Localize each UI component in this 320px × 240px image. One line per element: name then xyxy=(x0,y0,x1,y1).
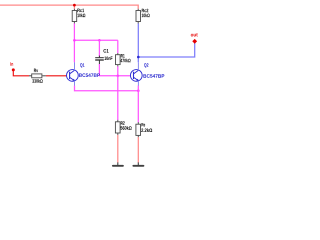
lead Re bottom xyxy=(137,135,139,137)
wire Re bottom to ground xyxy=(137,137,139,163)
transistor Q1 xyxy=(67,62,79,86)
resistor R2 xyxy=(115,121,131,133)
wire C1 top xyxy=(98,40,100,56)
wire Rc1 bottom to node40 to Q1 collector xyxy=(73,23,75,62)
wire VCC rail xyxy=(0,5,138,9)
transistor Q2 xyxy=(130,62,142,86)
wire R1 bottom to base node xyxy=(117,66,119,76)
capacitor C1 xyxy=(95,49,112,64)
node Q1 collector junction xyxy=(73,39,76,42)
resistor R1 xyxy=(116,54,131,65)
lead Re top xyxy=(137,122,139,124)
ground under Re xyxy=(133,162,143,165)
node C1 junction xyxy=(98,39,101,42)
lead Rc2 top xyxy=(137,9,139,11)
resistor Rc2 xyxy=(136,9,150,22)
lead R2 bottom xyxy=(117,133,119,135)
lead Rc1 bottom xyxy=(73,21,75,23)
wire R1 bottom to base node xyxy=(117,65,119,67)
resistor Rv xyxy=(29,69,46,83)
wire In to Rv xyxy=(13,71,29,76)
wire R2 bottom to ground xyxy=(117,135,119,163)
port In xyxy=(11,62,15,71)
wire node40 horizontal xyxy=(74,39,117,41)
resistor Re xyxy=(136,123,152,135)
wire node40 down to R1 xyxy=(117,40,119,53)
lead Rc2 bottom xyxy=(137,21,139,23)
wire base node down to R2 xyxy=(117,76,119,120)
port out xyxy=(191,33,198,44)
node VCC junction xyxy=(73,4,76,7)
ground under R2 xyxy=(113,162,123,165)
wire Q2 emitter to Re xyxy=(137,86,139,123)
label Q2 xyxy=(144,63,148,67)
label Q2 type xyxy=(143,74,164,78)
wire out branch xyxy=(138,43,194,57)
lead R1 top xyxy=(117,53,119,55)
wire C1 bottom to Q2 base line xyxy=(99,64,130,76)
resistor Rc1 xyxy=(72,9,85,22)
wire Rv to Q1 base xyxy=(46,75,67,77)
label Q1 xyxy=(80,63,84,67)
wire Rc1 top stub xyxy=(73,5,75,9)
node emitter junction xyxy=(137,89,140,92)
label Q1 type xyxy=(79,73,100,77)
wire Rc2 bottom to Q2 collector / out node xyxy=(137,23,139,62)
lead R2 top xyxy=(117,120,119,122)
node out junction xyxy=(137,56,140,59)
node Q2 base junction xyxy=(117,75,120,78)
lead Rc1 top xyxy=(73,9,75,11)
wire Q1 emitter to emitter rail xyxy=(75,86,139,91)
